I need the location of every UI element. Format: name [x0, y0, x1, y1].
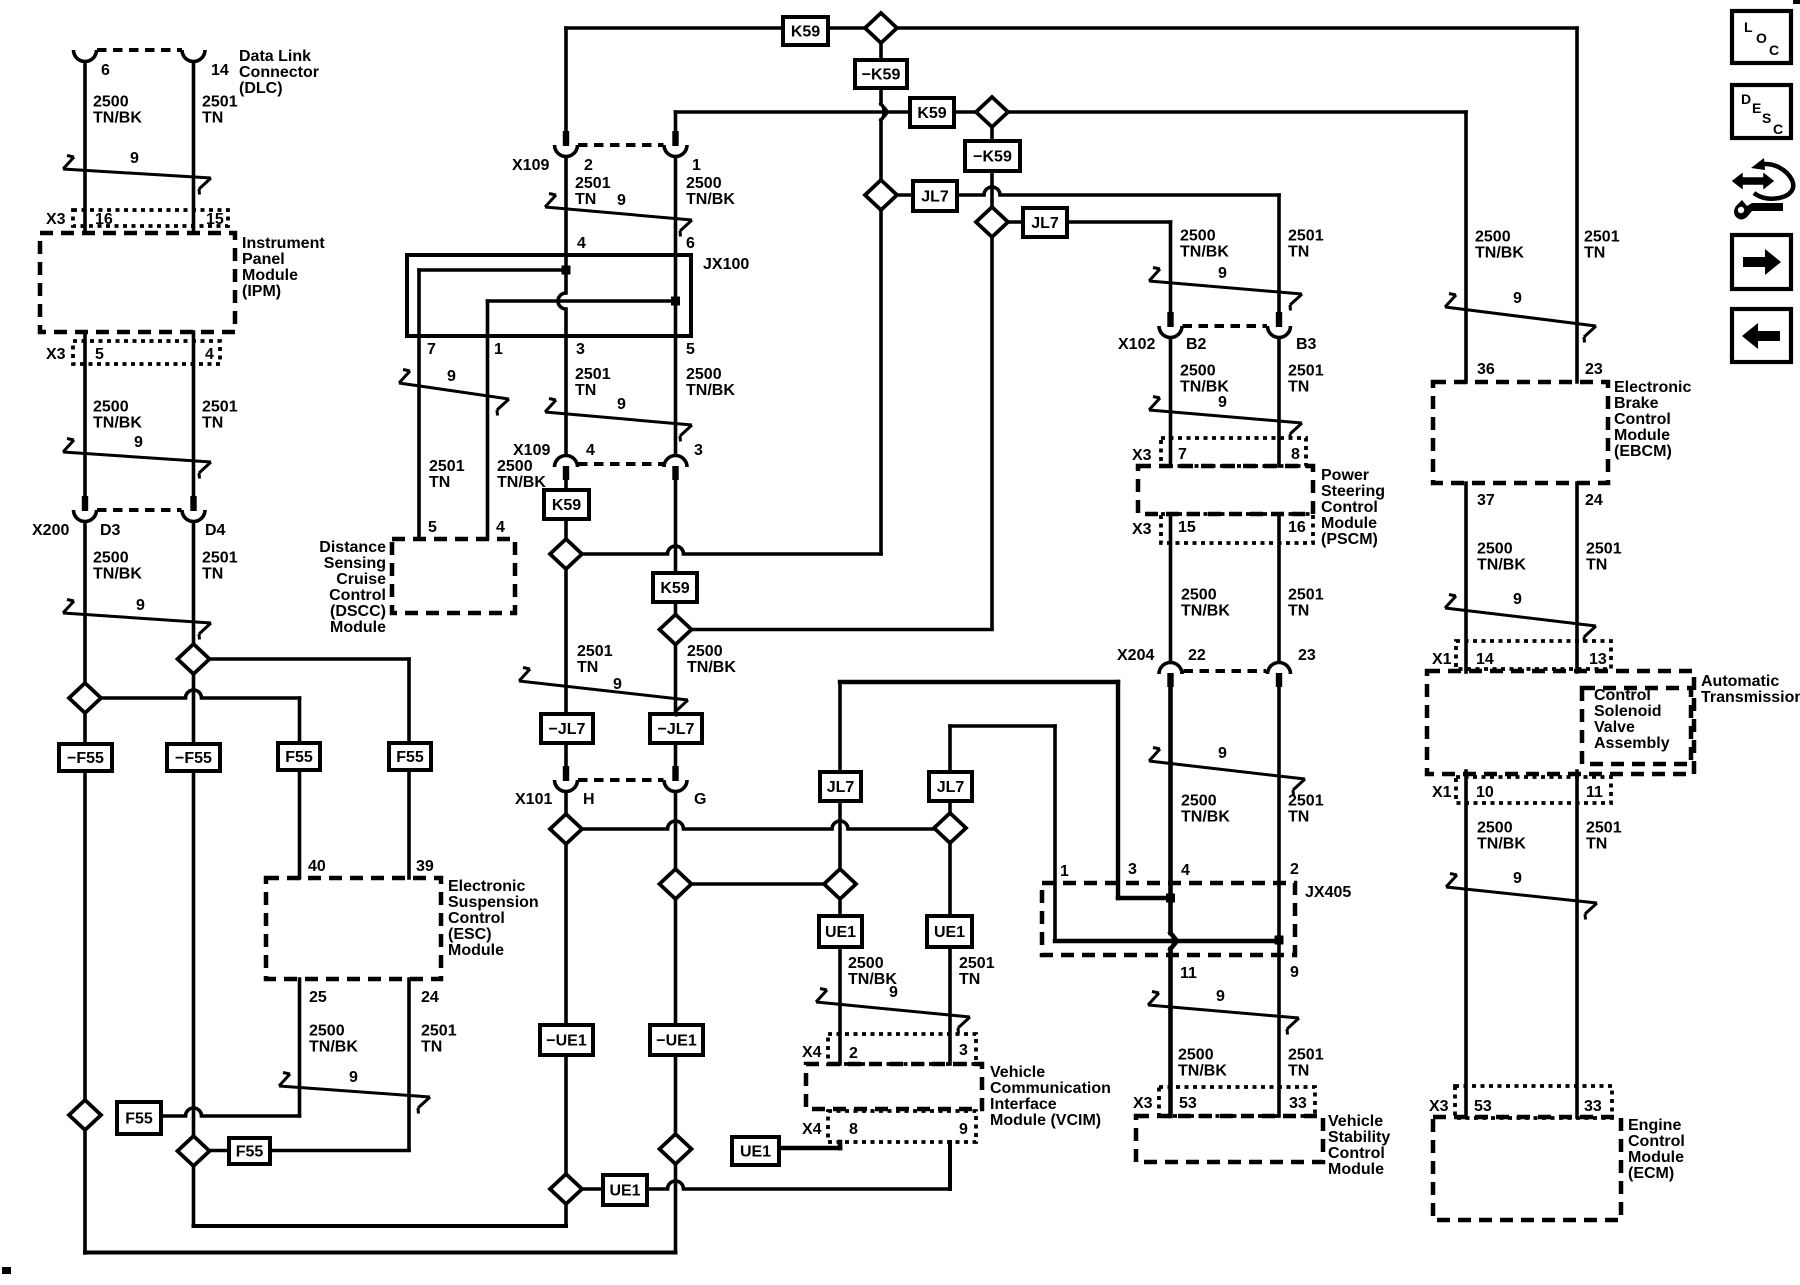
svg-text:9: 9	[1513, 870, 1522, 887]
svg-text:2501: 2501	[1288, 1047, 1324, 1064]
svg-text:15: 15	[1178, 519, 1196, 536]
connector terminal X109 pin 3 lower	[664, 456, 687, 481]
svg-text:X3: X3	[1132, 521, 1152, 538]
wire 2500 EBCM-36 column seg3	[1464, 771, 1468, 1117]
svg-text:Sensing: Sensing	[324, 555, 386, 572]
svg-text:Instrument: Instrument	[242, 235, 325, 252]
svg-text:UE1: UE1	[825, 924, 856, 941]
wire 2501 TN center column seg9	[564, 843, 568, 1026]
svg-text:−K59: −K59	[862, 66, 901, 83]
svg-text:TN: TN	[1288, 1063, 1309, 1080]
svg-text:Control: Control	[1614, 411, 1671, 428]
svg-text:2501: 2501	[202, 399, 238, 416]
wire 2500 top run (X109-1 to EBCM-36)	[676, 110, 1467, 114]
svg-text:Vehicle: Vehicle	[990, 1064, 1045, 1081]
wire ESC-39/24 column seg1	[407, 659, 411, 744]
wire 2501 TN DLC-14 column seg1	[192, 62, 196, 233]
svg-text:2500: 2500	[93, 550, 129, 567]
svg-text:2: 2	[584, 157, 593, 174]
svg-text:Vehicle: Vehicle	[1328, 1113, 1383, 1130]
junction block JX100	[407, 255, 691, 336]
svg-text:Electronic: Electronic	[448, 878, 525, 895]
twisted pair symbol X102 to PSCM	[1149, 394, 1302, 440]
svg-text:O: O	[1756, 30, 1767, 46]
wire 2501 TN center column seg2	[564, 157, 568, 293]
wire 2501 EBCM-23 column seg3	[1575, 771, 1579, 1117]
wire 2500 TN/BK center column seg1	[674, 112, 678, 132]
splice/net label box UE1 b	[927, 916, 972, 947]
svg-text:X3: X3	[1133, 1095, 1153, 1112]
splice/net label box F55 e	[117, 1102, 161, 1134]
svg-text:−JL7: −JL7	[658, 721, 695, 738]
wire 2501 K59 chain column seg4	[879, 210, 883, 554]
svg-text:Brake: Brake	[1614, 395, 1659, 412]
connector strip VSCM X3	[1159, 1087, 1315, 1116]
svg-text:2500: 2500	[1180, 228, 1216, 245]
svg-text:−F55: −F55	[67, 750, 104, 767]
svg-text:Assembly: Assembly	[1594, 735, 1670, 752]
svg-text:TN/BK: TN/BK	[93, 110, 142, 127]
wire 2501 TN center column seg11	[564, 1203, 568, 1226]
svg-text:23: 23	[1585, 361, 1603, 378]
module box Control Solenoid Valve Assembly	[1582, 688, 1691, 764]
svg-text:B2: B2	[1186, 336, 1207, 353]
junction diamond D4 JL7 2500	[976, 207, 1008, 237]
svg-text:9: 9	[134, 434, 143, 451]
svg-text:X1: X1	[1432, 651, 1452, 668]
wire 2501 TN center column seg5	[564, 518, 568, 540]
svg-text:JX100: JX100	[703, 256, 749, 273]
svg-text:X102: X102	[1118, 336, 1155, 353]
svg-text:TN/BK: TN/BK	[687, 659, 736, 676]
svg-text:4: 4	[586, 442, 595, 459]
svg-text:9: 9	[130, 150, 139, 167]
svg-text:Module (VCIM): Module (VCIM)	[990, 1112, 1101, 1129]
svg-text:3: 3	[959, 1042, 968, 1059]
wire 2500 JX405-3 column seg1	[1116, 682, 1120, 898]
svg-text:X109: X109	[513, 442, 550, 459]
connector terminal X102 pin B2	[1159, 312, 1182, 338]
junction diamond D5 2501 center	[550, 539, 582, 569]
svg-text:14: 14	[1476, 651, 1494, 668]
junction diamond D16 UE1d	[660, 1134, 692, 1164]
wire JL7 2500 branch (D4 to PSCM B2 feed)	[992, 220, 1171, 224]
wire ESC-40/25 column seg3	[298, 979, 302, 1116]
svg-text:10: 10	[1476, 784, 1494, 801]
wire JX100 internal 2501 (pin7 to pin4 junction)	[419, 268, 566, 272]
wire JL7 2501 branch (D3 to PSCM B3 feed)	[881, 193, 984, 197]
wire 2501 TN DLC-14 column seg6	[192, 1166, 196, 1226]
wire 2500 JL7a column seg4	[838, 946, 842, 1064]
svg-text:X3: X3	[46, 211, 66, 228]
svg-text:2501: 2501	[421, 1023, 457, 1040]
junction dot JX100 pin4/pin7 junction	[562, 266, 571, 275]
svg-text:Module: Module	[330, 619, 386, 636]
wire VCIM X4-8 stub	[838, 1142, 843, 1148]
splice/net label box F55 d	[389, 743, 431, 770]
wire 2501 JL7b column seg3	[948, 842, 952, 917]
svg-text:(EBCM): (EBCM)	[1614, 443, 1672, 460]
junction diamond D8 left 2500	[69, 683, 101, 713]
splice/net label box JL7 c	[820, 772, 861, 801]
wire 2501 K59 chain column seg1	[879, 42, 883, 61]
svg-text:2500: 2500	[686, 366, 722, 383]
svg-text:2501: 2501	[1584, 229, 1620, 246]
svg-text:1: 1	[692, 157, 701, 174]
svg-text:H: H	[583, 791, 595, 808]
svg-text:2501: 2501	[202, 550, 238, 567]
splice/net label box K59 a	[783, 17, 828, 45]
svg-text:7: 7	[1178, 446, 1187, 463]
twisted pair symbol ESC outputs	[279, 1069, 430, 1114]
splice/net label box UE1 c	[603, 1175, 647, 1205]
twisted pair symbol X109 to JX100	[545, 192, 692, 237]
svg-text:−UE1: −UE1	[656, 1032, 697, 1049]
connector strip IPM X3 bottom	[73, 341, 220, 364]
twisted pair symbol JX100 to X109 lower	[545, 396, 692, 442]
svg-text:Panel: Panel	[242, 251, 285, 268]
splice/net label box UE1 a	[819, 916, 862, 947]
wire JX100 internal 2500 (pin1 to pin6 junction)	[488, 299, 676, 303]
module box EBCM	[1433, 382, 1608, 483]
svg-text:2500: 2500	[309, 1023, 345, 1040]
wire 2501 PSCM column seg1	[1277, 195, 1281, 312]
svg-text:TN: TN	[1288, 809, 1309, 826]
svg-text:F55: F55	[285, 749, 313, 766]
svg-text:Steering: Steering	[1321, 483, 1385, 500]
connector dashed bridge X101	[578, 778, 664, 782]
svg-text:D4: D4	[205, 522, 226, 539]
splice/net label box -UE1 b	[650, 1025, 703, 1055]
wire 2500 PSCM column upper seg3	[1169, 514, 1173, 662]
svg-text:−K59: −K59	[973, 148, 1012, 165]
wire 2501 TN DLC-14 column seg4	[192, 674, 196, 744]
svg-text:4: 4	[1181, 862, 1190, 879]
svg-text:2501: 2501	[202, 94, 238, 111]
connector terminal X109 pin 4 lower	[555, 456, 578, 481]
svg-text:53: 53	[1179, 1095, 1197, 1112]
svg-text:2500: 2500	[1181, 587, 1217, 604]
svg-text:7: 7	[427, 341, 436, 358]
svg-text:4: 4	[205, 346, 214, 363]
svg-text:C: C	[1773, 121, 1783, 137]
svg-text:2500: 2500	[1477, 820, 1513, 837]
wire 2501 link JL7b up to JX405-1	[950, 724, 1055, 728]
DLC edge dashed	[97, 48, 182, 52]
twisted pair symbol to EBCM	[1445, 290, 1596, 343]
svg-text:24: 24	[1585, 492, 1603, 509]
wire 2501 EBCM-23 column seg2	[1575, 483, 1579, 672]
svg-text:14: 14	[211, 62, 229, 79]
module box Automatic Transmission	[1427, 671, 1694, 774]
svg-text:Module: Module	[1321, 515, 1377, 532]
wire 2501 K59 chain column seg3	[879, 120, 883, 182]
svg-text:11: 11	[1180, 965, 1197, 982]
wire 2501 link D5 to X204 chain	[566, 552, 668, 556]
connector dashed bridge X102	[1183, 324, 1268, 328]
svg-text:2501: 2501	[1586, 541, 1622, 558]
svg-text:5: 5	[428, 519, 437, 536]
svg-text:2501: 2501	[1288, 363, 1324, 380]
wire 2500 X204-22 to VSCM-53 lower (thick)	[1168, 949, 1173, 1116]
module box Vehicle Stability Control Module	[1136, 1116, 1323, 1162]
svg-text:Stability: Stability	[1328, 1129, 1390, 1146]
svg-text:2501: 2501	[429, 458, 465, 475]
wire 2501 TN center column seg8	[564, 792, 568, 815]
svg-text:K59: K59	[660, 580, 689, 597]
svg-text:−F55: −F55	[175, 750, 212, 767]
svg-text:TN: TN	[202, 566, 223, 583]
wire JX405 internal link pin1 to pin2 junction	[1055, 939, 1279, 943]
svg-text:TN: TN	[1586, 557, 1607, 574]
svg-text:Module: Module	[1328, 1161, 1384, 1178]
svg-text:2500: 2500	[686, 175, 722, 192]
wire 2500 JL7a column seg1	[838, 682, 842, 773]
svg-text:Suspension: Suspension	[448, 894, 539, 911]
svg-text:2: 2	[849, 1045, 858, 1062]
svg-text:2: 2	[1290, 861, 1299, 878]
svg-text:−UE1: −UE1	[546, 1032, 587, 1049]
svg-text:9: 9	[136, 597, 145, 614]
svg-text:X204: X204	[1117, 647, 1154, 664]
icon DESC box	[1732, 85, 1791, 138]
svg-text:Automatic: Automatic	[1701, 673, 1779, 690]
svg-text:L: L	[1744, 19, 1753, 35]
svg-text:1: 1	[494, 341, 503, 358]
svg-text:JL7: JL7	[827, 779, 855, 796]
connector terminal X204 pin 22	[1159, 663, 1182, 688]
twisted pair symbol UE1 to VCIM	[816, 984, 970, 1034]
svg-text:Electronic: Electronic	[1614, 379, 1691, 396]
svg-text:TN: TN	[1584, 245, 1605, 262]
wire 2500 TN/BK center column seg11	[674, 1163, 678, 1252]
svg-text:(DSCC): (DSCC)	[330, 603, 386, 620]
connector terminal X101 pin H	[555, 766, 578, 792]
module box DSCC Module	[392, 539, 515, 613]
twisted pair symbol IPM to X200	[63, 434, 211, 479]
svg-text:2500: 2500	[1180, 363, 1216, 380]
splice/net label box K59 c	[544, 490, 589, 519]
svg-text:3: 3	[576, 341, 585, 358]
svg-text:X4: X4	[802, 1044, 822, 1061]
svg-text:Power: Power	[1321, 467, 1369, 484]
svg-text:(PSCM): (PSCM)	[1321, 531, 1378, 548]
svg-text:Engine: Engine	[1628, 1117, 1681, 1134]
svg-text:9: 9	[959, 1121, 968, 1138]
wire 2500 TN/BK center column seg10	[674, 1054, 678, 1135]
svg-text:9: 9	[1290, 964, 1299, 981]
junction dot JX405 pin4/pin3 junction	[1166, 894, 1175, 903]
svg-text:2500: 2500	[1181, 793, 1217, 810]
wire 2500 K59 chain column seg3	[990, 236, 994, 629]
svg-text:16: 16	[1288, 519, 1306, 536]
svg-text:33: 33	[1289, 1095, 1307, 1112]
junction dot JX100 pin6/pin1 junction	[671, 297, 680, 306]
svg-text:(ESC): (ESC)	[448, 926, 492, 943]
svg-text:TN: TN	[577, 659, 598, 676]
connector terminal DLC pin 14 cup	[182, 50, 205, 62]
icon arrow right box	[1732, 235, 1791, 289]
svg-text:5: 5	[686, 341, 695, 358]
wire 2501 PSCM column seg4	[1277, 686, 1281, 1116]
svg-text:TN/BK: TN/BK	[309, 1039, 358, 1056]
junction diamond D1 on 2501 top bus	[865, 13, 897, 43]
junction diamond D15 UE1c	[550, 1174, 582, 1204]
svg-text:2501: 2501	[575, 175, 611, 192]
svg-text:G: G	[694, 791, 706, 808]
svg-text:TN/BK: TN/BK	[848, 971, 897, 988]
svg-text:Module: Module	[448, 942, 504, 959]
module box ECM	[1433, 1117, 1621, 1220]
splice/net label box JL7 d	[929, 772, 972, 801]
wire link D7 to F55 (ESC-39 feed)	[194, 657, 410, 661]
page corner mark bottom-left	[2, 1267, 11, 1274]
junction diamond D3 JL7 2501	[865, 180, 897, 210]
svg-text:K59: K59	[917, 105, 946, 122]
svg-text:6: 6	[686, 235, 695, 252]
svg-text:X200: X200	[32, 522, 69, 539]
wire 2500 TN/BK center column seg9	[674, 898, 678, 1026]
svg-text:TN: TN	[575, 382, 596, 399]
wire 2500 link D10 to D11	[676, 882, 841, 886]
svg-text:TN: TN	[959, 971, 980, 988]
connector terminal X102 pin B3	[1268, 312, 1291, 338]
wire 2501 PSCM column seg3	[1277, 514, 1281, 662]
icon LOC box	[1732, 11, 1791, 63]
wire 2501 TN DLC-14 column seg2	[192, 332, 196, 496]
svg-text:33: 33	[1584, 1098, 1602, 1115]
svg-text:TN/BK: TN/BK	[1180, 244, 1229, 261]
wire 2501 TN DLC-14 column seg3	[192, 522, 196, 644]
svg-text:11: 11	[1586, 784, 1603, 801]
svg-text:F55: F55	[396, 749, 424, 766]
svg-text:8: 8	[849, 1121, 858, 1138]
splice/net label box -UE1 a	[540, 1025, 593, 1055]
svg-text:Control: Control	[329, 587, 386, 604]
page corner mark top-right	[1793, 0, 1800, 4]
wire bottom 2500 return (x85 to x676)	[85, 1251, 676, 1255]
svg-text:TN/BK: TN/BK	[1178, 1063, 1227, 1080]
svg-text:(DLC): (DLC)	[239, 80, 283, 97]
svg-text:Module: Module	[242, 267, 298, 284]
svg-text:2501: 2501	[575, 366, 611, 383]
svg-text:(ECM): (ECM)	[1628, 1165, 1674, 1182]
wire 2501 TN center column seg4	[564, 481, 568, 491]
junction diamond D13 F55e	[69, 1100, 101, 1130]
wire ESC-39/24 column seg2	[407, 770, 411, 878]
wire link D14/F55f to ESC-24	[194, 1149, 410, 1153]
svg-text:TN/BK: TN/BK	[686, 191, 735, 208]
module box Instrument Panel Module (IPM)	[40, 233, 235, 332]
svg-text:8: 8	[1291, 446, 1300, 463]
svg-text:X4: X4	[802, 1121, 822, 1138]
connector terminal X204 pin 23	[1268, 663, 1291, 688]
crossover jog+arrow 2500 top run crosses 2501 K59 chain	[881, 104, 891, 120]
wire 2500 JL7a column seg2	[838, 800, 842, 870]
svg-text:9: 9	[1218, 265, 1227, 282]
wire 2501 TN DLC-14 column seg5	[192, 771, 196, 1136]
junction diamond D12 JL7d	[934, 813, 966, 843]
wire 2500 TN/BK DLC-6 column seg2	[83, 332, 87, 496]
connector terminal X109 pin 1	[664, 131, 687, 157]
svg-text:Distance: Distance	[319, 539, 386, 556]
svg-text:15: 15	[206, 211, 224, 228]
svg-text:UE1: UE1	[740, 1143, 771, 1160]
connector dashed bridge X204	[1184, 669, 1267, 673]
svg-text:JX405: JX405	[1305, 884, 1351, 901]
svg-text:9: 9	[613, 676, 622, 693]
svg-text:TN: TN	[1288, 379, 1309, 396]
twisted pair symbol JX405 to VSCM	[1148, 988, 1299, 1035]
connector terminal X200 pin D4	[182, 496, 205, 522]
svg-text:25: 25	[309, 989, 327, 1006]
wire 2500 K59 chain column seg2	[990, 170, 994, 208]
svg-text:X101: X101	[515, 791, 552, 808]
svg-text:2500: 2500	[1178, 1047, 1214, 1064]
svg-text:2500: 2500	[93, 94, 129, 111]
twisted pair symbol DLC drop	[63, 150, 211, 195]
svg-text:9: 9	[617, 396, 626, 413]
splice/net label box -K59 a	[855, 60, 907, 88]
wire 2501 TN center column seg3	[564, 309, 568, 455]
svg-text:5: 5	[95, 346, 104, 363]
svg-text:TN/BK: TN/BK	[686, 382, 735, 399]
twisted pair symbol X109 lower to -JL7	[519, 668, 688, 717]
connector strip AT X1 bottom	[1456, 777, 1611, 803]
svg-text:9: 9	[1218, 394, 1227, 411]
svg-text:K59: K59	[791, 23, 820, 40]
svg-text:TN/BK: TN/BK	[93, 415, 142, 432]
svg-text:C: C	[1769, 42, 1779, 58]
svg-text:Communication: Communication	[990, 1080, 1111, 1097]
wire 2501 TN top bus (X109-2 to EBCM-23)	[566, 26, 1577, 30]
connector strip AT X1 top	[1456, 641, 1611, 669]
svg-text:TN/BK: TN/BK	[497, 474, 546, 491]
svg-text:3: 3	[1128, 861, 1137, 878]
junction diamond D10 X101-G	[660, 869, 692, 899]
wire 2501 JL7b column seg1	[948, 726, 952, 773]
svg-text:Data Link: Data Link	[239, 48, 311, 65]
wire 2501 TN center column seg1	[564, 28, 568, 132]
splice/net label box F55 f	[229, 1138, 270, 1164]
wire 2501 TN center column seg7	[564, 742, 568, 766]
module box PSCM	[1138, 466, 1313, 514]
svg-text:E: E	[1752, 100, 1761, 116]
splice/net label box -F55 a	[59, 744, 112, 771]
connector dashed bridge X200	[97, 508, 182, 512]
module box VCIM	[806, 1064, 982, 1109]
svg-text:F55: F55	[125, 1110, 153, 1127]
twisted pair symbol JX100 to DSCC	[399, 368, 509, 416]
junction diamond D14 F55f	[178, 1136, 210, 1166]
wire 2501 JL7b column seg4	[948, 946, 952, 1064]
wire hop x566 over JX100 internal	[558, 293, 566, 309]
svg-text:9: 9	[1218, 745, 1227, 762]
svg-text:9: 9	[447, 368, 456, 385]
svg-text:Valve: Valve	[1594, 719, 1635, 736]
junction diamond D11 JL7c	[824, 869, 856, 899]
svg-text:2501: 2501	[959, 955, 995, 972]
svg-text:22: 22	[1188, 647, 1206, 664]
svg-text:Solenoid: Solenoid	[1594, 703, 1662, 720]
wire 2501 link D9 to D12	[566, 827, 668, 831]
wire ESC-40/25 column seg1	[298, 698, 302, 744]
svg-text:23: 23	[1298, 647, 1316, 664]
module box ESC Module	[266, 878, 441, 979]
wire link D8 to F55 (ESC-40 feed)	[85, 696, 186, 700]
svg-text:2501: 2501	[1288, 793, 1324, 810]
icon arrow left box	[1732, 309, 1791, 362]
